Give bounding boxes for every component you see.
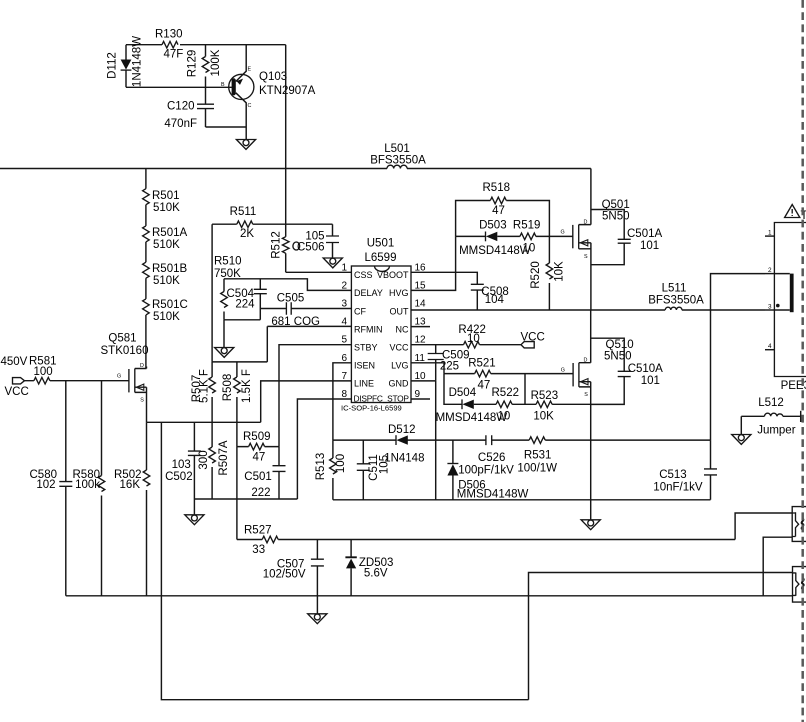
svg-text:10K: 10K [554, 261, 566, 282]
wire top rail Q103 [126, 44, 286, 46]
svg-text:C510A: C510A [628, 363, 663, 375]
svg-text:10: 10 [523, 243, 536, 255]
svg-text:750K: 750K [214, 268, 241, 280]
svg-text:Q581: Q581 [108, 333, 136, 345]
svg-text:100pF/1kV: 100pF/1kV [458, 465, 514, 477]
svg-text:S: S [584, 392, 588, 398]
svg-text:102/50V: 102/50V [263, 569, 306, 581]
svg-text:R531: R531 [524, 450, 552, 462]
ground below C507 [316, 596, 318, 614]
capacitor C526 [458, 435, 529, 476]
wire bottom long rail [66, 595, 793, 597]
svg-text:R501: R501 [152, 190, 180, 202]
svg-text:G: G [117, 374, 121, 380]
svg-text:100: 100 [335, 454, 347, 473]
svg-text:G: G [561, 230, 565, 236]
capacitor C507 [263, 540, 324, 596]
svg-text:47: 47 [492, 205, 505, 217]
svg-text:L512: L512 [758, 397, 784, 409]
resistor R581 [25, 356, 129, 385]
wire R508 drop to R527 [236, 447, 238, 540]
svg-text:47: 47 [253, 452, 266, 464]
svg-text:104: 104 [485, 294, 505, 306]
capacitor C510A [591, 338, 663, 404]
svg-text:D503: D503 [479, 220, 507, 232]
svg-text:2: 2 [768, 267, 772, 274]
IC U501 L6599 box [341, 238, 411, 413]
svg-text:GND: GND [389, 379, 410, 389]
svg-text:LVG: LVG [391, 361, 408, 371]
ground below RFMIN node [215, 348, 234, 358]
resistor R521 [444, 358, 573, 392]
optocoupler box upper right [792, 507, 806, 542]
transformer pin 2 stub [765, 267, 774, 274]
svg-text:L511: L511 [662, 283, 687, 295]
wire R510 C504 bottom [224, 319, 260, 321]
svg-text:47F: 47F [164, 49, 184, 61]
resistor R501 [143, 169, 181, 215]
capacitor C580 [30, 381, 73, 596]
svg-text:OUT: OUT [390, 306, 410, 316]
wire pin8 DISPFC_STOP [297, 399, 351, 499]
svg-text:NC: NC [396, 324, 409, 334]
svg-text:224: 224 [235, 299, 255, 311]
svg-text:R523: R523 [531, 390, 559, 402]
svg-text:E: E [248, 67, 252, 73]
svg-text:100k: 100k [75, 479, 100, 491]
resistor R520 [530, 236, 566, 310]
svg-text:10nF/1kV: 10nF/1kV [653, 482, 703, 494]
capacitor C508 [471, 284, 509, 310]
wire mid gnd rail [333, 499, 711, 501]
wire pin11 LVG [411, 363, 444, 374]
capacitor C501 [244, 447, 285, 499]
resistor R518 [483, 182, 511, 217]
svg-text:L6599: L6599 [365, 252, 397, 264]
diode D112 [107, 36, 144, 88]
ground center [581, 520, 600, 530]
inductor L501 [370, 143, 426, 169]
diode D504 [436, 374, 508, 424]
resistor R523 [531, 390, 591, 423]
diode D503 [456, 220, 531, 258]
transformer pin 4 stub [765, 343, 774, 350]
svg-text:MMSD4148W: MMSD4148W [457, 488, 529, 500]
resistor R508 [222, 362, 253, 447]
wire pin14 OUT rail [411, 309, 765, 311]
resistor R513 [315, 440, 347, 500]
svg-text:3: 3 [341, 299, 347, 310]
wire pin4 RFMIN [224, 320, 351, 362]
svg-text:47: 47 [478, 380, 491, 392]
svg-text:C526: C526 [478, 452, 506, 464]
U501 right pin names [377, 270, 409, 389]
wire main 450V bus [0, 168, 591, 170]
svg-text:IC-SOP-16-L6599: IC-SOP-16-L6599 [341, 404, 402, 413]
wire Q581 source row to LINE pin [147, 421, 261, 423]
svg-text:14: 14 [415, 299, 427, 310]
svg-text:2: 2 [341, 280, 347, 291]
svg-text:1.5K F: 1.5K F [241, 369, 253, 403]
resistor R580 [73, 381, 105, 596]
svg-text:10: 10 [467, 333, 480, 345]
wire emitter rail to C506 column [285, 45, 287, 225]
wire pin6 ISEN [333, 363, 352, 440]
dashed page boundary [801, 0, 804, 722]
capacitor C506 [286, 224, 339, 258]
svg-text:4: 4 [768, 343, 772, 350]
svg-text:VCC: VCC [5, 386, 29, 398]
node 450V input pad [1, 356, 29, 398]
zener ZD503 [345, 540, 393, 596]
resistor R527 [237, 525, 735, 557]
transformer T box [774, 223, 806, 393]
svg-text:C501: C501 [244, 471, 271, 483]
ground below C502 [193, 499, 195, 515]
svg-text:R501B: R501B [152, 263, 187, 275]
U501 right pin numbers [415, 262, 427, 400]
svg-text:C505: C505 [277, 293, 305, 305]
svg-text:C: C [248, 103, 252, 109]
wire R511 left drop [211, 224, 213, 362]
svg-text:510K: 510K [153, 202, 180, 214]
svg-text:4: 4 [341, 317, 347, 328]
svg-text:D504: D504 [449, 387, 477, 399]
wire DELAY net top [224, 279, 351, 291]
svg-text:D: D [140, 363, 144, 369]
svg-text:D: D [584, 220, 588, 226]
svg-text:U501: U501 [367, 238, 395, 250]
svg-text:R507A: R507A [218, 440, 230, 475]
svg-text:300: 300 [198, 450, 210, 469]
svg-text:RFMIN: RFMIN [354, 324, 383, 334]
wire pin1 CSS [286, 271, 352, 273]
transistor Q103 KTN2907A [221, 45, 316, 140]
svg-text:101: 101 [641, 375, 660, 387]
resistor R507 [191, 362, 215, 447]
wire HVG gate network frame [456, 201, 550, 237]
resistor R501B [143, 242, 188, 287]
svg-text:R518: R518 [483, 182, 511, 194]
svg-text:510K: 510K [153, 275, 180, 287]
svg-text:510K: 510K [153, 239, 180, 251]
svg-text:C501A: C501A [627, 228, 662, 240]
wire upper box lower pin [763, 537, 792, 596]
transistor Q581 STK0160 [101, 333, 149, 423]
capacitor C502 [165, 422, 201, 499]
svg-text:S: S [584, 254, 588, 260]
svg-text:R501C: R501C [152, 299, 188, 311]
transistor Q510 5N50 [561, 310, 634, 440]
svg-text:10K: 10K [533, 411, 554, 423]
svg-text:R520: R520 [530, 261, 542, 289]
svg-text:100: 100 [34, 366, 53, 378]
svg-text:470nF: 470nF [164, 118, 197, 130]
svg-text:CF: CF [354, 306, 366, 316]
resistor R519 [513, 220, 573, 255]
resistor R129 [187, 45, 223, 88]
svg-text:STBY: STBY [354, 343, 378, 353]
svg-text:S: S [140, 398, 144, 404]
svg-text:2K: 2K [240, 228, 254, 240]
svg-text:Q510: Q510 [606, 339, 634, 351]
svg-text:DELAY: DELAY [354, 288, 383, 298]
svg-text:R130: R130 [155, 29, 183, 41]
diode D506 [447, 440, 528, 500]
svg-text:R511: R511 [230, 206, 257, 218]
svg-text:C506: C506 [297, 242, 325, 254]
svg-text:101: 101 [640, 240, 659, 252]
svg-text:G: G [561, 368, 565, 374]
wire R501C to Q581 drain [145, 315, 147, 369]
svg-text:R129: R129 [187, 50, 199, 78]
inductor L512 [741, 397, 800, 437]
svg-text:BFS3550A: BFS3550A [648, 295, 704, 307]
svg-text:LINE: LINE [354, 379, 374, 389]
wire R507 R508 top row [212, 361, 267, 363]
svg-text:R512: R512 [271, 231, 283, 259]
svg-text:R522: R522 [492, 387, 520, 399]
wire transformer pin2 to C513 node [711, 274, 766, 441]
svg-text:D512: D512 [388, 424, 416, 436]
svg-text:450V: 450V [1, 356, 28, 368]
capacitor C120 [164, 87, 214, 130]
capacitor C505 [260, 293, 351, 329]
svg-text:D112: D112 [107, 52, 119, 79]
svg-text:VCC: VCC [389, 343, 409, 353]
svg-text:105: 105 [378, 455, 390, 474]
svg-text:16K: 16K [120, 479, 141, 491]
svg-text:C513: C513 [659, 469, 687, 481]
resistor R510 [214, 256, 242, 320]
resistor R507A [198, 440, 230, 499]
transformer pin 3 stub [765, 304, 774, 311]
wire Q510 source gnd drop [590, 440, 592, 520]
svg-text:5.1K F: 5.1K F [199, 369, 211, 403]
node VCC pad right [521, 332, 545, 348]
svg-text:B: B [221, 82, 225, 88]
resistor R512 [271, 224, 290, 272]
svg-text:510K: 510K [153, 311, 180, 323]
ground below C506 [323, 258, 342, 268]
wire pin7 LINE [261, 381, 352, 422]
resistor R502 [114, 422, 150, 596]
ground below L512 [740, 416, 742, 434]
svg-text:100K: 100K [210, 49, 222, 76]
inductor L511 [648, 283, 704, 311]
svg-text:L501: L501 [384, 143, 410, 155]
svg-text:C502: C502 [165, 471, 193, 483]
svg-text:100/1W: 100/1W [517, 463, 557, 475]
svg-text:1: 1 [768, 230, 772, 237]
svg-text:Q103: Q103 [259, 71, 287, 83]
resistor R511 [212, 206, 286, 240]
svg-text:5N50: 5N50 [604, 351, 632, 363]
wire lower box upper pin [529, 573, 793, 700]
wire R521 mid drop [524, 374, 526, 405]
svg-text:222: 222 [251, 487, 270, 499]
transformer winding bar [790, 274, 794, 313]
resistor R501A [143, 205, 188, 251]
svg-text:R527: R527 [244, 525, 272, 537]
capacitor C513 [653, 440, 717, 500]
wire analog gnd rail left [194, 498, 297, 500]
wire pin10 GND drop [411, 381, 436, 500]
svg-text:1: 1 [341, 262, 347, 273]
svg-text:CSS: CSS [354, 270, 373, 280]
svg-text:1N4148W: 1N4148W [132, 36, 144, 87]
capacitor C501A [591, 210, 663, 265]
wire Q103 base row [126, 86, 232, 88]
wire C120 to collector [206, 126, 247, 128]
wire pin16 VBOOT [411, 272, 477, 284]
wire pin5 STBY [279, 345, 351, 447]
resistor R531 [517, 437, 710, 475]
wire pin15 HVG [411, 236, 456, 290]
svg-text:D: D [584, 358, 588, 364]
svg-text:103: 103 [172, 459, 191, 471]
wire pin13 NC stub [411, 326, 430, 328]
svg-text:MMSD4148W: MMSD4148W [459, 245, 531, 257]
svg-text:33: 33 [252, 544, 265, 556]
resistor R130 [155, 29, 183, 61]
svg-text:VBOOT: VBOOT [377, 270, 409, 280]
svg-text:C120: C120 [167, 101, 195, 113]
resistor R522 [492, 387, 537, 423]
svg-text:VCC: VCC [521, 332, 545, 344]
svg-text:KTN2907A: KTN2907A [259, 85, 316, 97]
optocoupler box lower right [793, 567, 806, 603]
svg-text:R513: R513 [315, 453, 327, 481]
svg-text:Jumper: Jumper [757, 425, 796, 437]
svg-text:R509: R509 [243, 431, 271, 443]
svg-text:R519: R519 [513, 220, 541, 232]
svg-text:ISEN: ISEN [354, 361, 375, 371]
warning triangle T [785, 205, 806, 223]
capacitor C504 [227, 279, 267, 320]
svg-text:HVG: HVG [389, 288, 409, 298]
diode D512 [333, 424, 486, 465]
svg-text:102: 102 [36, 479, 55, 491]
capacitor C509 [428, 345, 470, 381]
svg-text:R521: R521 [468, 358, 496, 370]
svg-text:R510: R510 [214, 256, 242, 268]
ground below Q103 [236, 140, 255, 150]
svg-text:10: 10 [498, 411, 511, 423]
svg-text:R501A: R501A [152, 227, 187, 239]
wire pin9 stub [411, 398, 430, 400]
transformer pin 1 stub [765, 230, 774, 237]
capacitor C511 [357, 440, 391, 500]
svg-text:5.6V: 5.6V [364, 568, 388, 580]
svg-text:DISPFC_STOP: DISPFC_STOP [354, 394, 410, 404]
svg-text:3: 3 [768, 304, 772, 311]
svg-text:BFS3550A: BFS3550A [370, 155, 426, 167]
svg-text:R508: R508 [222, 374, 234, 402]
U501 left pin numbers [341, 262, 347, 400]
svg-text:STK0160: STK0160 [101, 345, 149, 357]
transistor Q501 5N50 [561, 169, 630, 311]
transformer polarity dot [776, 304, 780, 308]
resistor R509 [237, 431, 279, 464]
resistor R422 [411, 324, 521, 348]
wire bottom loop left [161, 422, 528, 699]
wire R527 net to upper box [735, 513, 792, 540]
U501 left pin names [354, 270, 410, 404]
svg-text:5N50: 5N50 [602, 211, 630, 223]
resistor R501C [143, 278, 188, 323]
